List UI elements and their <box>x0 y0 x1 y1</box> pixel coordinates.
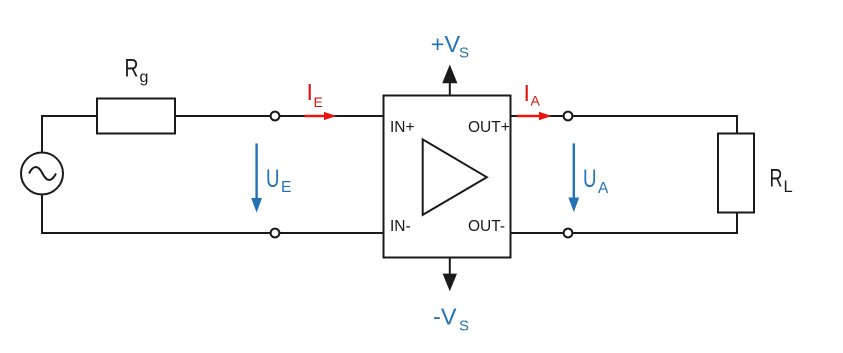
svg-text:U: U <box>266 165 280 193</box>
label IA <box>524 80 541 109</box>
svg-text:U: U <box>583 165 597 193</box>
node bottom input (open circle) <box>271 229 280 238</box>
svg-text:IN+: IN+ <box>390 119 415 136</box>
svg-text:A: A <box>531 93 541 109</box>
label Rg <box>125 55 149 86</box>
current arrow IE <box>305 112 337 120</box>
svg-text:g: g <box>140 69 149 86</box>
voltage arrow UE <box>251 143 262 212</box>
svg-text:I: I <box>524 80 530 106</box>
label +VS <box>431 31 469 62</box>
label UE <box>266 165 291 196</box>
wire from Rg to amplifier IN+ <box>175 115 384 117</box>
svg-text:S: S <box>459 318 469 335</box>
wire from amplifier OUT+ to right corner <box>511 116 738 134</box>
resistor RL <box>718 134 754 213</box>
svg-text:S: S <box>459 45 469 62</box>
label IE <box>307 79 323 110</box>
node input+ (open circle) <box>271 112 280 121</box>
-VS supply stem and arrow <box>443 258 457 292</box>
resistor Rg <box>97 99 175 134</box>
label UA <box>583 165 609 197</box>
svg-text:L: L <box>784 178 793 196</box>
svg-text:I: I <box>307 79 313 105</box>
svg-text:IN-: IN- <box>390 218 411 235</box>
svg-text:-V: -V <box>433 303 457 329</box>
svg-text:A: A <box>598 180 609 197</box>
svg-text:OUT+: OUT+ <box>468 119 510 136</box>
voltage arrow UA <box>568 143 579 212</box>
wire from RL bottom to bottom rail right <box>511 213 738 234</box>
svg-text:+V: +V <box>431 31 461 57</box>
svg-text:R: R <box>770 164 783 192</box>
source V1 sine symbol <box>29 167 56 180</box>
node bottom output (open circle) <box>564 229 573 238</box>
source V1 circle <box>21 153 63 195</box>
svg-text:E: E <box>281 179 291 196</box>
wire top-left vertical from source to top rail <box>42 116 97 152</box>
+VS supply stem and arrow <box>442 65 457 96</box>
op-amp triangle <box>423 139 487 215</box>
current arrow IA <box>517 112 552 121</box>
node output+ (open circle) <box>564 112 573 121</box>
op-amp U1 box <box>384 96 511 258</box>
svg-text:E: E <box>314 94 323 110</box>
label RL <box>770 164 793 196</box>
svg-text:OUT-: OUT- <box>468 218 505 235</box>
label -VS <box>433 303 469 334</box>
wire bottom rail left to source <box>42 196 384 234</box>
svg-text:R: R <box>125 55 139 83</box>
